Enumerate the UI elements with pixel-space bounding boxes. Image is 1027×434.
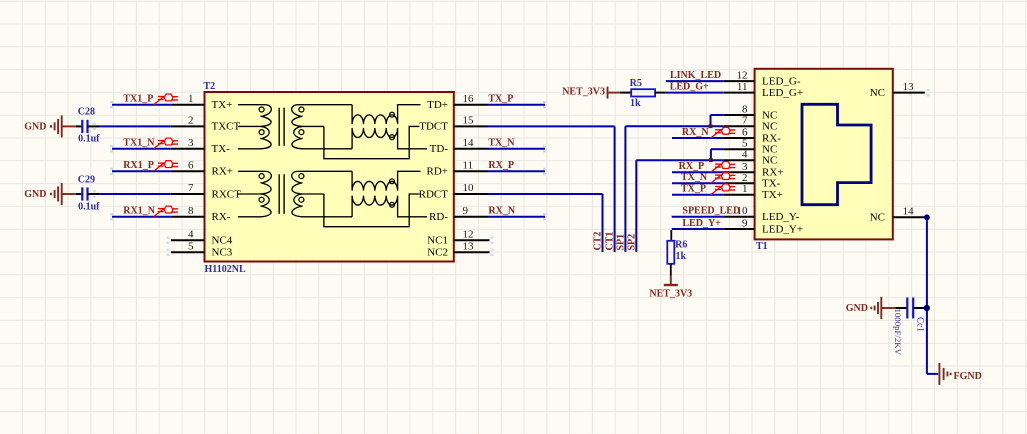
svg-text:NC: NC [870, 87, 885, 99]
svg-text:RDCT: RDCT [419, 188, 449, 200]
svg-text:1: 1 [742, 183, 748, 195]
svg-text:NC2: NC2 [427, 247, 448, 259]
svg-text:13: 13 [463, 240, 475, 252]
svg-text:6: 6 [742, 127, 748, 139]
svg-text:RX_P: RX_P [488, 160, 514, 171]
svg-text:RX_P: RX_P [679, 161, 705, 172]
svg-text:TD-: TD- [430, 143, 449, 155]
svg-text:NC4: NC4 [212, 235, 233, 247]
svg-text:12: 12 [737, 70, 748, 82]
svg-text:LED_G-: LED_G- [762, 76, 801, 88]
svg-text:RX1_P: RX1_P [123, 160, 154, 171]
svg-text:GND: GND [846, 303, 868, 314]
svg-text:TX+: TX+ [212, 99, 233, 111]
svg-text:TXCT: TXCT [212, 121, 241, 133]
svg-text:RX+: RX+ [212, 166, 233, 178]
svg-text:16: 16 [463, 93, 475, 105]
svg-text:8: 8 [742, 104, 748, 116]
svg-text:1000pF/2KV: 1000pF/2KV [893, 309, 903, 356]
svg-text:RD+: RD+ [427, 166, 448, 178]
svg-text:7: 7 [188, 182, 194, 194]
svg-text:R6: R6 [675, 240, 687, 251]
svg-text:NC: NC [762, 109, 777, 121]
svg-text:TD+: TD+ [427, 99, 448, 111]
svg-text:4: 4 [742, 149, 748, 161]
svg-text:10: 10 [463, 182, 475, 194]
svg-text:TX_N: TX_N [488, 137, 515, 148]
svg-text:0.1uf: 0.1uf [78, 134, 100, 145]
svg-text:11: 11 [463, 160, 474, 172]
svg-text:RX_N: RX_N [488, 205, 515, 216]
svg-text:NET_3V3: NET_3V3 [649, 289, 692, 300]
svg-text:RX-: RX- [212, 211, 231, 223]
svg-text:H1102NL: H1102NL [205, 264, 246, 275]
svg-text:LED_Y-: LED_Y- [762, 211, 800, 223]
svg-text:SPEED_LED: SPEED_LED [682, 206, 740, 217]
svg-text:TX1_P: TX1_P [123, 93, 153, 104]
svg-text:RX1_N: RX1_N [123, 205, 155, 216]
svg-text:GND: GND [24, 189, 46, 200]
svg-text:1k: 1k [630, 98, 641, 109]
svg-text:11: 11 [737, 81, 748, 93]
svg-text:TX_P: TX_P [488, 93, 513, 104]
svg-text:9: 9 [463, 205, 469, 217]
svg-text:LED_Y+: LED_Y+ [762, 223, 803, 235]
svg-text:RD-: RD- [429, 211, 448, 223]
svg-text:NET_3V3: NET_3V3 [562, 86, 605, 97]
svg-text:NC: NC [870, 212, 885, 224]
svg-text:T1: T1 [756, 241, 768, 252]
svg-text:8: 8 [188, 205, 194, 217]
svg-text:TX_N: TX_N [681, 172, 708, 183]
svg-text:9: 9 [742, 218, 748, 230]
svg-text:1k: 1k [676, 251, 687, 262]
svg-text:TX1_N: TX1_N [123, 137, 155, 148]
svg-text:14: 14 [903, 206, 915, 218]
svg-text:NC: NC [762, 121, 777, 133]
svg-text:T2: T2 [204, 81, 216, 92]
svg-text:4: 4 [188, 228, 194, 240]
svg-text:C29: C29 [78, 174, 95, 185]
svg-text:TDCT: TDCT [419, 121, 448, 133]
svg-text:2: 2 [742, 172, 748, 184]
svg-text:5: 5 [188, 240, 194, 252]
svg-text:15: 15 [463, 115, 475, 127]
svg-text:2: 2 [188, 115, 194, 127]
svg-text:FGND: FGND [954, 371, 982, 382]
svg-text:NC: NC [762, 155, 777, 167]
svg-text:CT2: CT2 [593, 232, 604, 251]
svg-text:LINK_LED: LINK_LED [670, 70, 721, 81]
svg-text:RX_N: RX_N [682, 127, 709, 138]
svg-text:0.1uf: 0.1uf [78, 201, 100, 212]
svg-text:RXCT: RXCT [212, 188, 242, 200]
svg-text:GND: GND [24, 122, 46, 133]
svg-text:12: 12 [463, 228, 474, 240]
svg-text:14: 14 [463, 137, 475, 149]
svg-text:6: 6 [188, 160, 194, 172]
svg-text:TX-: TX- [762, 178, 781, 190]
svg-text:LED_Y+: LED_Y+ [682, 218, 721, 229]
svg-text:TX+: TX+ [762, 189, 783, 201]
svg-text:RX-: RX- [762, 132, 781, 144]
svg-text:7: 7 [742, 115, 748, 127]
svg-text:NC3: NC3 [212, 247, 233, 259]
svg-text:TX-: TX- [212, 143, 231, 155]
svg-text:LED_G+: LED_G+ [670, 81, 709, 92]
svg-text:NC1: NC1 [427, 235, 448, 247]
svg-text:R5: R5 [630, 78, 642, 89]
svg-text:1: 1 [188, 93, 194, 105]
svg-text:Cc1: Cc1 [916, 317, 926, 332]
svg-text:13: 13 [903, 81, 915, 93]
svg-text:TX_P: TX_P [681, 184, 706, 195]
svg-text:C28: C28 [78, 107, 95, 118]
svg-text:LED_G+: LED_G+ [762, 87, 803, 99]
svg-text:3: 3 [188, 137, 194, 149]
svg-text:CT1: CT1 [605, 232, 616, 251]
